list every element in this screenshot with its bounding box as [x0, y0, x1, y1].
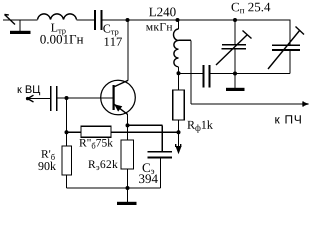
node: top junction L240: [176, 18, 180, 22]
capacitor Cтр plates: [95, 10, 102, 30]
label 90k: [38, 162, 56, 170]
transistor VT1 emitter arrow (PNP): [114, 104, 122, 111]
transistor VT1 emitter diagonal: [114, 104, 128, 115]
wire: Cэ bottom lead: [160, 158, 162, 188]
capacitor Cэ plates: [148, 152, 173, 158]
terminal: antenna slash: [5, 15, 16, 25]
node: supply: [177, 130, 181, 134]
label 0.001Гн: [40, 35, 83, 44]
label Cтр: [103, 25, 118, 37]
ground (bottom): [117, 202, 137, 205]
label Cэ: [143, 163, 155, 174]
variable capacitor C1 plates: [222, 45, 247, 49]
wire: к ВЦ arrow line: [26, 98, 51, 100]
label Lтр: [51, 24, 66, 36]
wire: ground stub mid: [234, 74, 236, 89]
ground (tuning caps): [226, 88, 245, 91]
wire: coil tap to right: [179, 39, 192, 41]
wire: ground stub bottom: [127, 188, 129, 202]
wire: base lead: [57, 97, 114, 99]
wire: R'б bottom lead: [66, 175, 68, 188]
node: base bias: [65, 96, 69, 100]
inductor Lтр: [38, 14, 77, 20]
label Cп 25.4: [232, 3, 271, 14]
wire: emitter branch to Cэ: [128, 124, 163, 126]
wire: Rэ bottom lead: [127, 169, 129, 188]
resistor Rф body: [173, 90, 185, 120]
wire: R"б right lead to supply node: [111, 131, 179, 133]
wire: antenna input stub: [3, 19, 20, 21]
arrowhead: supply down arrow: [175, 144, 181, 154]
variable capacitor C2 arrow: [268, 27, 304, 70]
wire: bias vertical base to R'б: [66, 98, 68, 146]
wire: tap drop to IF output: [190, 40, 192, 104]
wire: ground drop at input: [19, 20, 21, 31]
variable capacitor C1 bottom lead: [234, 49, 236, 73]
node: top junction collector: [126, 18, 130, 22]
resistor Rэ body: [121, 140, 134, 169]
variable capacitor C1 arrow: [216, 31, 252, 66]
wire: L240 bottom stub: [178, 67, 180, 73]
ground (input): [10, 31, 31, 34]
resistor R"б body: [81, 126, 111, 137]
label 117: [105, 38, 122, 46]
transistor VT1 base bar: [112, 85, 114, 110]
node: top junction C1: [233, 18, 237, 22]
wire: L240 bottom node to coupling cap: [179, 73, 204, 75]
node: bias divider: [65, 130, 69, 134]
node: emitter branch: [126, 123, 130, 127]
capacitor coupling plates: [204, 65, 210, 88]
variable capacitor C1 top lead: [234, 20, 236, 44]
arrowhead: к ПЧ: [302, 101, 308, 107]
variable capacitor C2 bottom lead: [289, 50, 291, 73]
wire: input to Lтр: [20, 19, 38, 21]
label R'б: [41, 150, 54, 160]
wire: Cэ top lead: [161, 125, 163, 151]
wire: Lтр to Cтр: [77, 19, 95, 21]
wire: top rail Cтр to right corner: [102, 19, 291, 21]
label к ПЧ: [275, 115, 301, 123]
arrowhead: к ВЦ: [26, 95, 34, 102]
label L240: [149, 8, 176, 17]
wire: Rф bottom lead: [178, 120, 180, 132]
variable capacitor C2 plates: [272, 45, 300, 50]
label 394: [139, 174, 158, 183]
label мкГн: [146, 23, 172, 31]
resistor R'б body: [62, 146, 72, 175]
label R"б75k: [79, 139, 113, 149]
wire: supply arrow stem: [178, 132, 180, 146]
node: L240 bottom: [177, 71, 181, 75]
wire: R"б left lead: [67, 131, 82, 133]
label Rф1k: [187, 120, 212, 132]
wire: collector lead down: [127, 20, 129, 81]
label к ВЦ: [18, 85, 40, 95]
wire: emitter lead down: [127, 114, 129, 140]
wire: ground node to right cap bottom: [235, 73, 290, 75]
inductor L240 coil arcs: [174, 29, 179, 67]
node: tuning ground: [233, 72, 237, 76]
wire: L240 top stub: [178, 20, 180, 29]
transistor VT1 circle: [101, 80, 136, 115]
wire: Rф top lead: [178, 74, 180, 91]
wire: к ПЧ arrow line: [191, 103, 303, 105]
wire: bottom ground rail: [67, 187, 161, 189]
wire: coupling cap to ground node: [210, 73, 236, 75]
capacitor input plates: [51, 86, 57, 111]
label Rэ62k: [88, 160, 117, 170]
transistor VT1 collector diagonal: [114, 80, 128, 87]
node: bottom ground: [126, 186, 130, 190]
variable capacitor C2 top lead: [289, 20, 291, 45]
